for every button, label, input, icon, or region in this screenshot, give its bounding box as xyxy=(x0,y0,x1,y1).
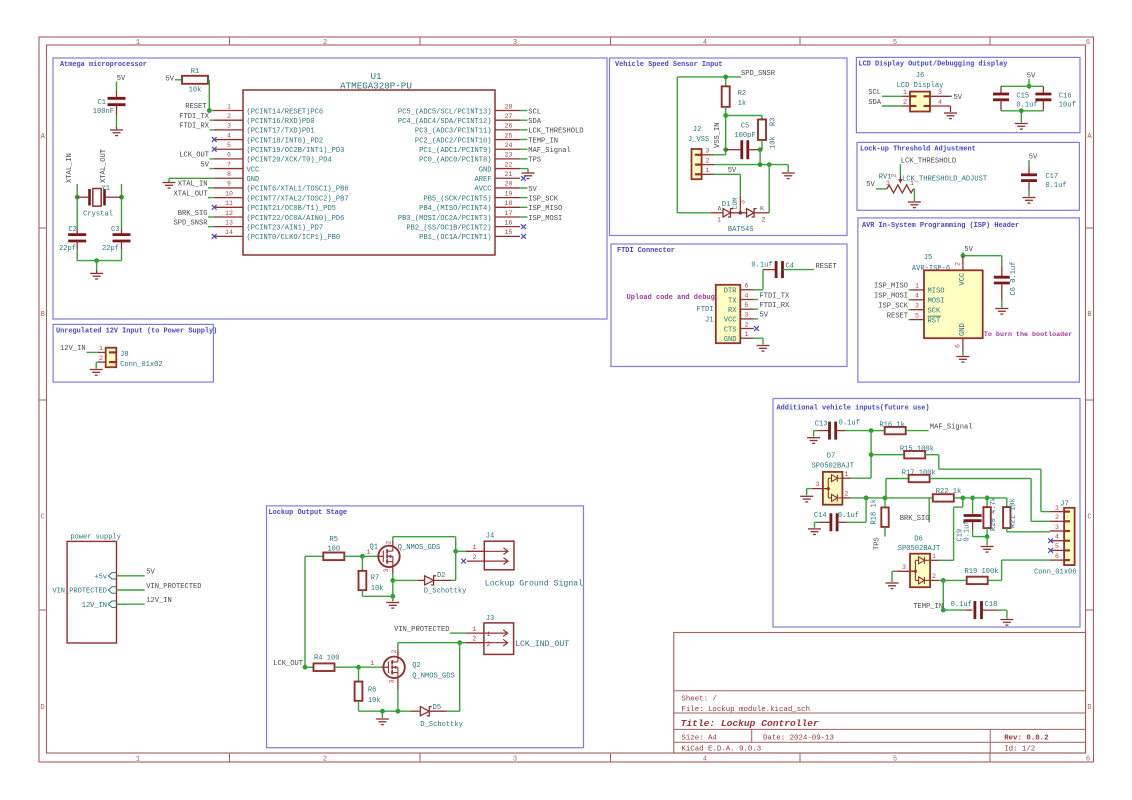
svg-text:LCK_THRESHOLD: LCK_THRESHOLD xyxy=(901,157,956,165)
wire riser C13 xyxy=(870,431,872,479)
sheet power supply xyxy=(67,541,116,643)
label FTDI_TX (J1) xyxy=(754,299,758,301)
svg-text:PB4_(MISO/PCINT4): PB4_(MISO/PCINT4) xyxy=(419,205,491,213)
junction R22 right a xyxy=(960,496,965,501)
wire 5V to C6 xyxy=(963,255,1002,257)
wire C4 to DTR xyxy=(762,270,764,290)
svg-text:5V: 5V xyxy=(728,167,737,175)
pin 3 J6 xyxy=(930,95,951,97)
svg-text:20: 20 xyxy=(505,181,513,188)
potentiometer RV1 xyxy=(887,185,913,193)
group box AVR ISP Header xyxy=(858,218,1080,382)
svg-text:(PCINT17/TXD)PD1: (PCINT17/TXD)PD1 xyxy=(247,128,315,136)
svg-text:5: 5 xyxy=(893,39,897,47)
svg-text:J7: J7 xyxy=(1060,501,1069,509)
svg-text:C6 0.1uf: C6 0.1uf xyxy=(1010,261,1018,295)
wire D6 pin2 xyxy=(939,579,943,581)
sheet pin +5v xyxy=(108,573,116,579)
svg-text:R21 10k: R21 10k xyxy=(1010,498,1018,528)
svg-text:C17: C17 xyxy=(1045,173,1058,181)
wire VIN_PROTECTED xyxy=(117,589,145,591)
pin 1 (D7) xyxy=(842,477,851,479)
label SCL (pin28) xyxy=(520,110,528,112)
junction C5 right xyxy=(758,147,763,152)
wire R15 to J7 pin1 xyxy=(938,455,940,470)
svg-text:VSS_IN: VSS_IN xyxy=(714,122,722,148)
label ISP_MISO (pin18) xyxy=(520,206,528,208)
svg-text:22pf: 22pf xyxy=(59,245,76,253)
resistor R19 xyxy=(943,579,966,581)
svg-text:6: 6 xyxy=(955,344,962,348)
svg-text:0.1uf: 0.1uf xyxy=(1045,182,1066,190)
resistor R2 xyxy=(725,77,727,87)
svg-text:PC0_(ADC0/PCINT8): PC0_(ADC0/PCINT8) xyxy=(419,157,491,165)
ground (crystal) xyxy=(90,273,103,279)
pin 4 J6 xyxy=(930,105,951,107)
junction D6 pin2 xyxy=(941,578,946,583)
group box Vehicle Speed Sensor Input xyxy=(610,58,848,236)
svg-text:5V: 5V xyxy=(866,181,875,189)
svg-text:R15 100k: R15 100k xyxy=(900,446,934,454)
svg-text:C3: C3 xyxy=(111,226,120,234)
svg-text:5V: 5V xyxy=(165,76,174,84)
junction crystal left xyxy=(75,195,80,200)
svg-text:0.1uf: 0.1uf xyxy=(838,512,859,520)
wire D2 anode xyxy=(393,579,417,581)
svg-text:1: 1 xyxy=(915,283,919,290)
group box Additional vehicle inputs xyxy=(773,399,1080,628)
svg-text:C: C xyxy=(41,514,45,522)
diode D1b xyxy=(747,209,755,217)
svg-text:1: 1 xyxy=(1055,504,1059,511)
svg-text:SPD_SNSR: SPD_SNSR xyxy=(173,220,208,228)
svg-text:PB3_(MOSI/OC2A/PCINT3): PB3_(MOSI/OC2A/PCINT3) xyxy=(398,215,492,223)
svg-text:11: 11 xyxy=(225,200,233,207)
svg-text:1: 1 xyxy=(99,345,103,352)
svg-text:2: 2 xyxy=(472,636,476,643)
resistor R18 xyxy=(884,498,886,508)
svg-text:R4 100: R4 100 xyxy=(314,655,340,663)
svg-text:4: 4 xyxy=(938,99,942,106)
svg-text:ISP_MISO: ISP_MISO xyxy=(528,205,562,213)
svg-text:AVCC: AVCC xyxy=(474,186,491,194)
wire Q1 source down xyxy=(392,567,394,573)
svg-text:Y1: Y1 xyxy=(102,185,111,193)
wire XTAL_IN down xyxy=(76,184,78,197)
wire GND J5 xyxy=(962,352,964,356)
wire D1 cathode xyxy=(754,212,769,214)
svg-text:VCC: VCC xyxy=(247,166,260,174)
svg-text:100: 100 xyxy=(327,546,340,554)
junction R18 top xyxy=(883,496,888,501)
svg-text:VIN_PROTECTED: VIN_PROTECTED xyxy=(394,626,449,634)
resistor R4 xyxy=(305,666,314,668)
svg-text:17: 17 xyxy=(505,210,513,217)
wire C13 gnd xyxy=(813,431,815,437)
wire crystal gnd rail xyxy=(77,260,121,262)
svg-text:MOSI: MOSI xyxy=(928,298,945,306)
junction C19 top xyxy=(970,496,975,501)
wire gate Q2 xyxy=(359,666,383,668)
pin 2 (J3) xyxy=(460,642,466,644)
svg-text:2: 2 xyxy=(385,541,392,545)
ground (C19/R20) xyxy=(981,547,994,553)
svg-text:FTDI_RX: FTDI_RX xyxy=(179,123,210,131)
svg-text:4: 4 xyxy=(915,293,919,300)
junction bottom rail xyxy=(1019,108,1024,113)
svg-text:PC1_(ADC1/PCINT9): PC1_(ADC1/PCINT9) xyxy=(419,147,491,155)
svg-text:File: Lockup module.kicad_sch: File: Lockup module.kicad_sch xyxy=(681,706,810,714)
svg-text:PC5_(ADC5/SCL/PCINT13): PC5_(ADC5/SCL/PCINT13) xyxy=(398,108,492,116)
junction TEMP_IN xyxy=(941,608,946,613)
svg-text:4: 4 xyxy=(703,756,707,764)
ground (pin8) xyxy=(163,183,176,189)
capacitor C14 xyxy=(815,521,820,523)
svg-text:3: 3 xyxy=(816,481,820,488)
junction RESET/R1 xyxy=(207,108,212,113)
svg-text:14: 14 xyxy=(225,229,233,236)
svg-text:TPS: TPS xyxy=(874,537,882,550)
wire TEMP_IN drop xyxy=(942,580,944,610)
svg-text:(PCINT22/OC0A/AIN0)_PD6: (PCINT22/OC0A/AIN0)_PD6 xyxy=(247,215,345,223)
junction R20 top xyxy=(985,496,990,501)
svg-text:ISP_SCK: ISP_SCK xyxy=(878,303,909,311)
svg-text:XTAL_IN: XTAL_IN xyxy=(178,181,208,189)
svg-text:5V: 5V xyxy=(1029,154,1038,162)
pin 2 VCC (J5) xyxy=(962,256,964,271)
resistor R7 xyxy=(361,556,363,571)
power 5V (J6 pin3) xyxy=(951,95,953,97)
label TEMP_IN (pin25) xyxy=(520,139,528,141)
J7 pins 1-6 xyxy=(1050,511,1065,513)
svg-text:Conn_01x06: Conn_01x06 xyxy=(1034,569,1077,577)
wire D5 cathode xyxy=(429,710,446,712)
svg-text:2: 2 xyxy=(99,355,103,362)
svg-text:(PCINT21/OC0B/T1)_PD5: (PCINT21/OC0B/T1)_PD5 xyxy=(247,205,336,213)
svg-text:1: 1 xyxy=(136,756,140,764)
junction Q1 source xyxy=(390,578,395,583)
svg-text:D7: D7 xyxy=(827,453,836,461)
wire gnd stub xyxy=(96,261,98,270)
capacitor C18 xyxy=(943,609,965,611)
svg-text:2: 2 xyxy=(1055,514,1059,521)
svg-text:PB5_(SCK/PCINT5): PB5_(SCK/PCINT5) xyxy=(423,195,491,203)
wire R2 to R3 xyxy=(726,115,762,117)
svg-text:GND: GND xyxy=(959,323,967,336)
junction pin2 b xyxy=(767,162,772,167)
svg-text:27: 27 xyxy=(505,113,513,120)
wire R1 to RESET net xyxy=(208,79,209,81)
svg-text:(PCINT19/OC2B/INT1)_PD3: (PCINT19/OC2B/INT1)_PD3 xyxy=(247,147,345,155)
ground (J2 pin2) xyxy=(782,173,795,179)
svg-text:R6: R6 xyxy=(368,687,377,695)
svg-text:Q2: Q2 xyxy=(412,662,421,670)
wire D1 anode xyxy=(677,212,710,214)
svg-text:Lock-up Threshold Adjustment: Lock-up Threshold Adjustment xyxy=(860,146,976,154)
ground (LCD caps) xyxy=(1015,124,1028,130)
wire D6 riser xyxy=(962,498,964,507)
ground (C13) xyxy=(807,438,820,444)
svg-text:J1: J1 xyxy=(705,316,714,324)
wire D1 K drop xyxy=(768,165,770,213)
svg-text:2: 2 xyxy=(323,756,327,764)
wire RV1 to gnd xyxy=(913,188,914,190)
svg-text:15: 15 xyxy=(505,229,513,236)
ground (J1) xyxy=(757,346,770,352)
crystal Y1 xyxy=(77,196,88,198)
pin 1 (D6) xyxy=(930,559,939,561)
svg-text:3: 3 xyxy=(227,123,231,130)
resistor R15 xyxy=(871,454,904,456)
group box LCD Display Output/Debugging display xyxy=(856,57,1080,132)
svg-text:1: 1 xyxy=(227,103,231,110)
svg-text:5V: 5V xyxy=(146,569,155,577)
svg-text:0.1uf: 0.1uf xyxy=(964,520,972,541)
no-connect J4 pin2 xyxy=(461,559,466,564)
wire DTR up xyxy=(754,289,763,291)
svg-text:K: K xyxy=(760,205,764,212)
svg-text:VCC: VCC xyxy=(959,273,967,286)
junction gate Q2 xyxy=(356,665,361,670)
wire C1 to ground xyxy=(116,105,118,115)
junction gnd rail xyxy=(94,258,99,263)
capacitor C2 xyxy=(68,235,86,241)
wire gnd stub (LCD) xyxy=(1020,111,1022,123)
svg-text:Crystal: Crystal xyxy=(83,211,113,219)
svg-text:D1: D1 xyxy=(722,201,731,209)
arrow pin1 (J4) xyxy=(485,548,508,555)
arrow pin2 (J4) xyxy=(485,558,508,565)
svg-text:21: 21 xyxy=(505,171,513,178)
svg-text:10uf: 10uf xyxy=(1059,102,1076,110)
wire D2 cathode xyxy=(434,579,452,581)
svg-text:12V_IN: 12V_IN xyxy=(60,345,86,353)
svg-text:Unregulated 12V Input (to Powe: Unregulated 12V Input (to Power Supply) xyxy=(56,328,217,336)
svg-text:GND: GND xyxy=(479,166,492,174)
svg-text:Sheet: /: Sheet: / xyxy=(681,695,717,703)
power 5V (J1) xyxy=(754,318,758,320)
junction J3 pin2 xyxy=(457,640,462,645)
group box FTDI Connector xyxy=(611,244,847,367)
svg-text:Lockup Ground Signal: Lockup Ground Signal xyxy=(485,579,583,589)
diode D5 xyxy=(411,710,420,712)
svg-text:19: 19 xyxy=(505,190,513,197)
svg-text:1: 1 xyxy=(903,89,907,96)
wire C3 down xyxy=(121,241,123,250)
svg-text:0.1uf: 0.1uf xyxy=(751,262,772,270)
pin 1 (J3) xyxy=(466,632,484,634)
connector J5 body xyxy=(924,270,983,338)
group box Lock-up Threshold Adjustment xyxy=(857,142,1079,210)
no-connect pin15 xyxy=(521,234,526,239)
svg-text:J6: J6 xyxy=(916,72,925,80)
wire LCK_THRESHOLD down xyxy=(899,164,901,176)
junction R2 bottom xyxy=(723,113,728,118)
wire C15/C16 bottom rail xyxy=(1001,110,1043,112)
junction C5 left xyxy=(723,147,728,152)
junction pin2 a xyxy=(758,162,763,167)
svg-text:power supply: power supply xyxy=(70,534,120,542)
svg-text:RESET: RESET xyxy=(887,312,908,320)
svg-text:5V: 5V xyxy=(964,246,973,254)
svg-text:RESET: RESET xyxy=(185,103,206,111)
svg-text:LCD Display Output/Debugging d: LCD Display Output/Debugging display xyxy=(859,61,1008,69)
svg-text:VIN_PROTECTED: VIN_PROTECTED xyxy=(146,583,201,591)
no-connect J7 pin5 xyxy=(1048,548,1053,553)
svg-text:3: 3 xyxy=(513,39,517,47)
wire D7 pin2 row xyxy=(851,497,929,499)
ground (J5) xyxy=(956,357,969,363)
svg-text:ISP_SCK: ISP_SCK xyxy=(528,195,559,203)
arrow pin1 (J3) xyxy=(485,630,508,637)
resistor R3 xyxy=(758,119,766,140)
svg-text:DTR: DTR xyxy=(724,288,738,296)
wire BRK_SIG drop xyxy=(928,498,930,522)
svg-text:6: 6 xyxy=(1086,39,1090,47)
svg-text:7: 7 xyxy=(227,161,231,168)
U1 right pins 15-28 with numbers and names xyxy=(495,110,520,112)
svg-text:To burn the bootloader: To burn the bootloader xyxy=(984,331,1072,339)
svg-text:XTAL_OUT: XTAL_OUT xyxy=(100,149,108,183)
wire gnd stub Q1 xyxy=(392,596,394,601)
svg-text:5V: 5V xyxy=(760,312,769,320)
svg-text:SDA: SDA xyxy=(528,118,542,126)
svg-text:R7: R7 xyxy=(371,575,380,583)
svg-text:C13: C13 xyxy=(815,420,828,428)
diode array D6 xyxy=(910,554,930,588)
svg-text:SCL: SCL xyxy=(528,108,541,116)
diode D1a xyxy=(723,209,731,217)
svg-text:5V: 5V xyxy=(1027,73,1036,81)
ground (D7) xyxy=(800,496,813,502)
svg-text:9: 9 xyxy=(227,181,231,188)
junction J4 pin1 xyxy=(453,549,458,554)
svg-text:SP0502BAJT: SP0502BAJT xyxy=(898,545,941,553)
svg-text:ISP_MISO: ISP_MISO xyxy=(874,283,908,291)
svg-text:2: 2 xyxy=(762,217,766,224)
svg-text:5V: 5V xyxy=(528,186,537,194)
wire R21 to J7 pin3 xyxy=(1007,531,1050,533)
svg-text:TEMP_IN: TEMP_IN xyxy=(913,603,943,611)
svg-text:12V_IN: 12V_IN xyxy=(146,597,172,605)
svg-text:6: 6 xyxy=(745,283,749,290)
no-connect pin5 xyxy=(212,147,217,152)
ground (C18) xyxy=(1000,620,1013,626)
svg-text:GND: GND xyxy=(247,176,260,184)
svg-text:3: 3 xyxy=(706,148,710,155)
svg-text:GND: GND xyxy=(724,336,737,344)
pin 3 (D6) xyxy=(897,570,915,572)
svg-text:5: 5 xyxy=(227,142,231,149)
svg-text:D6: D6 xyxy=(914,536,923,544)
svg-text:C14: C14 xyxy=(814,512,827,520)
svg-text:Q_NMOS_GDS: Q_NMOS_GDS xyxy=(398,544,441,552)
svg-text:1: 1 xyxy=(706,167,710,174)
svg-text:6: 6 xyxy=(1055,553,1059,560)
svg-text:2: 2 xyxy=(903,99,907,106)
svg-text:(PCINT18/INT0)_PD2: (PCINT18/INT0)_PD2 xyxy=(247,137,324,145)
wire VIN_PROTECTED xyxy=(450,632,466,634)
wire J3 pin2 drop xyxy=(459,643,461,712)
svg-text:C15: C15 xyxy=(1016,93,1029,101)
svg-text:0.1uf: 0.1uf xyxy=(1016,102,1037,110)
svg-text:2: 2 xyxy=(891,174,898,178)
svg-text:FTDI Connector: FTDI Connector xyxy=(617,247,675,255)
svg-text:10k: 10k xyxy=(371,585,384,593)
pin 3 (D7) xyxy=(812,488,829,490)
pin 2 (D7) xyxy=(842,497,851,499)
wire GND pin22 xyxy=(520,168,528,170)
svg-text:2: 2 xyxy=(227,113,231,120)
svg-text:26: 26 xyxy=(505,123,513,130)
svg-text:1: 1 xyxy=(910,180,914,187)
svg-text:Upload code and debug: Upload code and debug xyxy=(627,294,715,302)
wire R19 to J7 pin6 xyxy=(1001,560,1003,580)
svg-text:2: 2 xyxy=(955,262,962,266)
svg-text:Q_NMOS_GDS: Q_NMOS_GDS xyxy=(412,673,455,681)
svg-text:4: 4 xyxy=(703,39,707,47)
junction crystal right xyxy=(119,195,124,200)
svg-text:0.1uf: 0.1uf xyxy=(839,419,860,427)
svg-text:MAF_Signal: MAF_Signal xyxy=(930,423,973,431)
svg-text:1: 1 xyxy=(845,471,849,478)
junction C13/R16 xyxy=(869,428,874,433)
svg-text:Rev: 0.0.2: Rev: 0.0.2 xyxy=(1004,735,1048,743)
connector J8 body xyxy=(106,348,117,368)
capacitor C19 xyxy=(972,498,974,514)
connector J4 body xyxy=(484,541,514,570)
svg-text:3: 3 xyxy=(383,569,390,573)
resistor R6 xyxy=(358,667,360,681)
svg-text:1k: 1k xyxy=(738,100,747,108)
transistor Q1 xyxy=(378,546,399,567)
wire D1 mid xyxy=(731,212,747,214)
svg-text:100nF: 100nF xyxy=(93,108,114,116)
svg-text:AVR-ISP-6: AVR-ISP-6 xyxy=(912,265,950,273)
svg-text:18: 18 xyxy=(505,200,513,207)
svg-text:13: 13 xyxy=(225,219,233,226)
svg-text:J5: J5 xyxy=(924,254,933,262)
svg-text:BRK_SIG: BRK_SIG xyxy=(900,515,930,523)
svg-text:5: 5 xyxy=(745,302,749,309)
svg-text:(PCINT6/XTAL1/TOSC1)_PB6: (PCINT6/XTAL1/TOSC1)_PB6 xyxy=(247,186,349,194)
U1 left pins 1-14 with numbers and names xyxy=(214,110,243,112)
svg-text:24: 24 xyxy=(505,142,513,149)
svg-text:RX: RX xyxy=(728,307,737,315)
svg-text:R5: R5 xyxy=(330,536,339,544)
junction LCK_OUT xyxy=(303,665,308,670)
connector J6 xyxy=(910,92,930,112)
svg-text:5: 5 xyxy=(1055,543,1059,550)
capacitor C17 xyxy=(1028,167,1030,175)
svg-text:R2: R2 xyxy=(738,90,747,98)
svg-text:R17 100k: R17 100k xyxy=(902,469,936,477)
wire to C3 xyxy=(121,197,123,228)
svg-text:16: 16 xyxy=(505,219,513,226)
svg-text:1: 1 xyxy=(370,660,374,667)
svg-text:D2: D2 xyxy=(437,572,446,580)
svg-text:100pF: 100pF xyxy=(734,132,755,140)
svg-text:28: 28 xyxy=(505,103,513,110)
svg-text:5V: 5V xyxy=(954,94,963,102)
wire C18 gnd xyxy=(1006,610,1008,618)
svg-text:3: 3 xyxy=(886,180,890,187)
svg-text:C1: C1 xyxy=(97,99,106,107)
svg-text:COM: COM xyxy=(732,198,739,210)
svg-text:2: 2 xyxy=(391,650,398,654)
capacitor C6 xyxy=(1001,266,1003,277)
ground (J8) xyxy=(90,370,103,376)
